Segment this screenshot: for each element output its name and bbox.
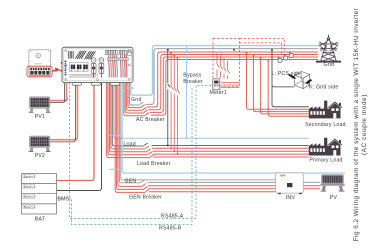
svg-text:Breaker: Breaker — [183, 79, 203, 85]
svg-text:Secondary Load: Secondary Load — [305, 122, 346, 128]
svg-text:Load: Load — [124, 141, 136, 147]
svg-text:PV: PV — [330, 195, 338, 201]
svg-text:Battery 1: Battery 1 — [24, 175, 36, 178]
svg-text:AC Breaker: AC Breaker — [136, 117, 165, 123]
svg-text:Bypass: Bypass — [183, 73, 201, 79]
svg-text:Battery 2: Battery 2 — [24, 186, 36, 189]
svg-text:Grid: Grid — [131, 97, 142, 103]
svg-text:BAT: BAT — [35, 217, 46, 223]
svg-text:GEN Breaker: GEN Breaker — [129, 195, 162, 201]
svg-text:Grid: Grid — [323, 62, 334, 68]
svg-text:(AC couple mode): (AC couple mode) — [361, 94, 368, 155]
svg-text:Fig 6.2 Wiring diagram of the: Fig 6.2 Wiring diagram of the system wit… — [353, 7, 360, 241]
svg-text:RS485-A: RS485-A — [161, 214, 184, 220]
svg-text:Battery 3: Battery 3 — [24, 196, 36, 199]
svg-text:L: PCS side: L: PCS side — [272, 71, 302, 77]
svg-text:Battery 4: Battery 4 — [24, 206, 36, 209]
svg-text:PV2: PV2 — [35, 153, 45, 159]
svg-text:Primary Load: Primary Load — [309, 157, 342, 163]
svg-text:K: Grid side: K: Grid side — [309, 85, 339, 91]
svg-text:Load Breaker: Load Breaker — [137, 161, 171, 167]
svg-text:Meter1: Meter1 — [210, 90, 227, 96]
svg-text:RS485-B: RS485-B — [159, 226, 182, 232]
svg-text:BMS: BMS — [58, 196, 70, 202]
svg-text:PV1: PV1 — [35, 114, 45, 120]
svg-text:INV: INV — [286, 195, 296, 201]
svg-text:GEN: GEN — [125, 179, 137, 185]
